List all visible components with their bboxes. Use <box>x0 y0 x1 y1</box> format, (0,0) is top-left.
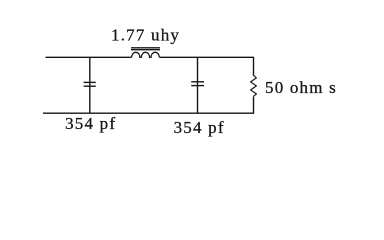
wire top-left segment <box>46 56 132 58</box>
svg-text:354 pf: 354 pf <box>174 118 225 137</box>
inductor L1 coil <box>132 52 160 57</box>
svg-text:50 ohm s: 50 ohm s <box>265 78 337 97</box>
resistor R1 zigzag <box>251 75 257 96</box>
wire right branch upper lead <box>253 57 255 75</box>
inductor L1 core bar upper <box>131 47 160 49</box>
capacitor C2 top plate <box>191 81 204 83</box>
capacitor C2 lead wire <box>197 57 199 113</box>
wire bottom segment <box>43 112 254 114</box>
wire right branch lower lead <box>253 97 255 114</box>
capacitor C1 top plate <box>84 81 96 83</box>
wire top-right segment <box>159 56 254 58</box>
svg-text:1.77 uhy: 1.77 uhy <box>111 26 180 45</box>
capacitor C1 bottom plate <box>84 85 96 87</box>
capacitor C1 lead wire <box>89 57 91 113</box>
svg-text:354 pf: 354 pf <box>65 114 116 133</box>
capacitor C2 bottom plate <box>191 85 204 87</box>
inductor L1 core bar lower <box>131 49 160 51</box>
